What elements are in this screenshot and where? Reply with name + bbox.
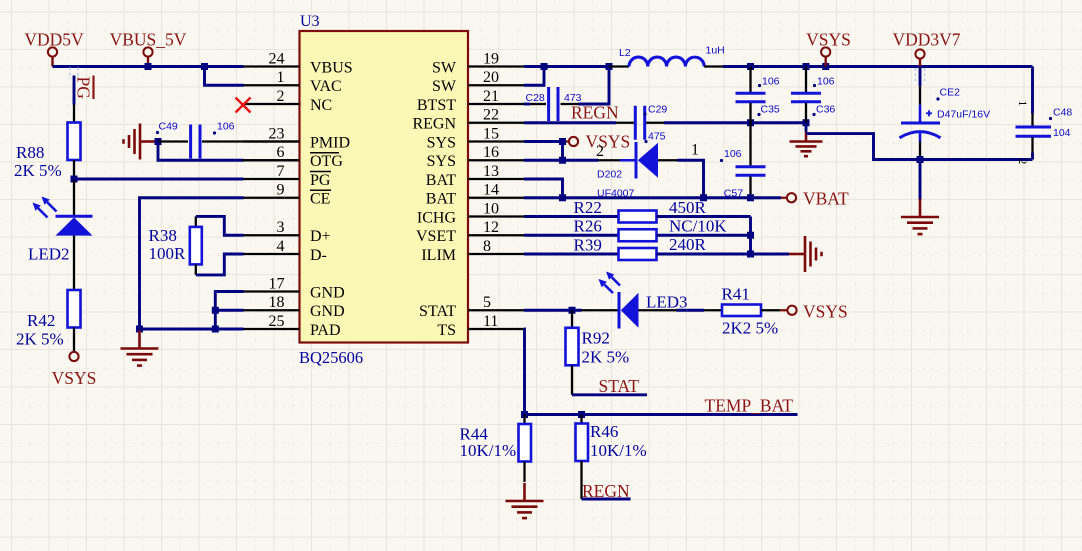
svg-text:R26: R26 — [574, 217, 602, 236]
wire CE net pin 9 — [140, 198, 244, 329]
wire bus down to R88 — [73, 76, 76, 105]
svg-text:1: 1 — [1016, 101, 1028, 107]
svg-text:PMID: PMID — [310, 134, 350, 151]
svg-text:475: 475 — [648, 131, 666, 143]
power port VSYS (bottom left) — [69, 352, 78, 361]
svg-text:C35: C35 — [761, 104, 780, 116]
svg-text:LED2: LED2 — [28, 245, 70, 264]
svg-text:R39: R39 — [574, 236, 602, 255]
LED LED2 — [73, 180, 75, 216]
svg-text:REGN: REGN — [412, 116, 456, 133]
svg-text:19: 19 — [483, 50, 499, 67]
ground (bottom left) — [138, 331, 141, 349]
svg-text:D47uF/16V: D47uF/16V — [937, 109, 990, 121]
svg-text:106: 106 — [724, 148, 742, 160]
svg-text:C57: C57 — [724, 188, 743, 200]
pin 22 REGN (right) — [468, 122, 524, 124]
svg-text:VSYS: VSYS — [803, 302, 848, 322]
svg-text:PG: PG — [310, 172, 331, 189]
svg-text:23: 23 — [269, 125, 285, 142]
svg-text:BQ25606: BQ25606 — [299, 348, 363, 367]
svg-text:106: 106 — [217, 121, 235, 133]
junction R44 top — [521, 411, 528, 418]
capacitor C57 — [749, 123, 751, 166]
pin 7 PG (left) — [244, 178, 300, 180]
svg-text:D202: D202 — [597, 169, 622, 181]
svg-text:VDD3V7: VDD3V7 — [892, 30, 960, 50]
svg-text:BAT: BAT — [426, 172, 456, 189]
junction VBUS_5V stem — [145, 63, 152, 70]
pin 3 D+ (left) — [244, 234, 300, 236]
svg-text:18: 18 — [269, 294, 285, 311]
junction C36 bottom — [803, 119, 810, 126]
svg-text:13: 13 — [483, 163, 499, 180]
svg-text:C29: C29 — [648, 104, 667, 116]
pin 15 SYS (right) — [468, 140, 524, 142]
svg-text:ICHG: ICHG — [417, 209, 457, 226]
svg-text:TEMP_BAT: TEMP_BAT — [705, 396, 794, 416]
svg-text:GND: GND — [310, 303, 345, 320]
ground below C36 — [805, 132, 808, 142]
wire STAT net label stub — [572, 393, 647, 396]
wire LED2 to R42 — [73, 236, 75, 290]
svg-text:1: 1 — [277, 69, 285, 86]
resistor R41 — [677, 309, 705, 312]
junction SYS pin15 — [559, 138, 566, 145]
svg-text:R92: R92 — [582, 329, 610, 348]
svg-text:PAD: PAD — [310, 322, 341, 339]
svg-text:ILIM: ILIM — [421, 247, 456, 264]
IC U3 BQ25606 body — [300, 31, 469, 343]
junction VSYS port stem — [822, 63, 829, 70]
svg-text:SYS: SYS — [427, 134, 456, 151]
svg-text:2K2 5%: 2K2 5% — [722, 319, 778, 338]
svg-text:C48: C48 — [1053, 107, 1072, 119]
wire R22 down — [749, 217, 752, 255]
svg-text:2: 2 — [596, 143, 604, 160]
svg-text:1: 1 — [691, 142, 699, 159]
svg-text:VSYS: VSYS — [806, 30, 851, 50]
junction pin18 branch — [212, 307, 219, 314]
wire R38 bottom to pin 4 D- — [196, 254, 244, 275]
power port VDD5V — [48, 47, 57, 56]
resistor R22 — [524, 215, 619, 218]
svg-text:3: 3 — [277, 219, 285, 236]
ERC marker near R88 top — [69, 68, 71, 80]
svg-text:CE: CE — [310, 191, 330, 208]
svg-text:U3: U3 — [300, 13, 320, 30]
svg-text:OTG: OTG — [310, 153, 343, 170]
junction CE2 bottom — [917, 156, 924, 163]
wire C29 to gnd net — [646, 122, 664, 124]
svg-text:GND: GND — [310, 284, 345, 301]
junction C49 ground node — [155, 138, 162, 145]
junction pin25 line — [212, 326, 219, 333]
ground (rotated left) near C49 — [140, 140, 156, 143]
inductor L2 — [609, 65, 629, 67]
power port VSYS (mid) — [566, 140, 569, 142]
wire R38 top to pin 3 D+ — [196, 216, 244, 235]
pin 25 PAD (left) — [244, 328, 300, 330]
wire BAT pins 13/14 — [524, 179, 563, 198]
pin 20 SW (right) — [468, 84, 524, 86]
svg-text:6: 6 — [277, 144, 285, 161]
svg-text:15: 15 — [483, 125, 499, 142]
wire REGN pin 22 — [524, 121, 616, 124]
svg-text:4: 4 — [277, 238, 285, 255]
svg-text:STAT: STAT — [599, 376, 640, 396]
capacitor C35 — [749, 67, 751, 93]
ground below R44 — [523, 483, 526, 501]
svg-text:SW: SW — [432, 78, 457, 95]
svg-text:1uH: 1uH — [706, 45, 725, 57]
svg-text:240R: 240R — [669, 235, 707, 254]
svg-text:SW: SW — [432, 59, 457, 76]
svg-text:VBUS_5V: VBUS_5V — [110, 30, 187, 50]
capacitor CE2 (electrolytic) — [919, 67, 922, 87]
svg-text:14: 14 — [483, 182, 499, 199]
svg-text:R42: R42 — [27, 311, 55, 330]
wire STAT pin 5 — [524, 309, 582, 312]
svg-text:D+: D+ — [310, 228, 331, 245]
power port VDD3V7 — [915, 49, 924, 58]
pin 9 CE (left) — [244, 197, 300, 199]
resistor R39 — [524, 253, 619, 256]
junction pin1 branch — [201, 63, 208, 70]
resistor R88 — [73, 105, 75, 123]
junction SW pin20 — [541, 63, 548, 70]
svg-text:24: 24 — [269, 50, 285, 67]
pin 21 BTST (right) — [468, 103, 524, 105]
svg-text:VAC: VAC — [310, 78, 342, 95]
svg-text:R46: R46 — [590, 422, 618, 441]
svg-text:STAT: STAT — [419, 303, 456, 320]
wire right gnd rail — [920, 158, 1033, 161]
svg-text:TS: TS — [437, 322, 456, 339]
power port VSYS (right) — [780, 309, 787, 311]
pin 6 OTG (left) — [244, 159, 300, 161]
junction R26 right — [747, 232, 754, 239]
pin 11 TS (right) — [468, 328, 524, 330]
junction GND column — [136, 326, 143, 333]
svg-text:106: 106 — [817, 76, 835, 88]
svg-text:VSET: VSET — [416, 228, 456, 245]
wire TEMP_BAT net — [525, 413, 798, 416]
pin 5 STAT (right) — [468, 309, 524, 311]
wire gnd to right caps — [806, 134, 920, 160]
svg-text:NC: NC — [310, 97, 332, 114]
junction SYS pin16 — [559, 157, 566, 164]
svg-text:17: 17 — [269, 275, 285, 292]
capacitor C49 — [158, 140, 188, 142]
wire SW pins 19/20 — [524, 65, 609, 68]
wire SYS pins 15/16 — [524, 140, 563, 143]
svg-text:104: 104 — [1053, 127, 1071, 139]
pin 14 BAT (right) — [468, 197, 524, 199]
pin 18 GND (left) — [244, 309, 300, 311]
resistor R26 — [524, 234, 619, 237]
wire L2 to VSYS bus — [723, 65, 1033, 68]
junction BAT pins — [559, 194, 566, 201]
svg-text:R38: R38 — [149, 226, 177, 245]
CE2 plus sign — [926, 112, 932, 114]
capacitor C36 — [805, 67, 807, 93]
wire PG net to pin 7 — [74, 178, 244, 181]
svg-text:20: 20 — [483, 69, 499, 86]
pin 1 VAC (left) — [244, 84, 300, 86]
pin 2 NC (left) — [244, 103, 300, 105]
power port VBUS_5V — [143, 47, 152, 56]
svg-text:PG: PG — [74, 77, 94, 100]
junction R88-PG — [71, 176, 78, 183]
svg-text:2K 5%: 2K 5% — [16, 330, 64, 349]
svg-text:R88: R88 — [16, 143, 44, 162]
svg-text:VBAT: VBAT — [803, 189, 849, 209]
svg-text:LED3: LED3 — [646, 293, 688, 312]
svg-text:D-: D- — [310, 247, 327, 264]
svg-text:VDD5V: VDD5V — [24, 30, 84, 50]
svg-text:7: 7 — [277, 163, 285, 180]
junction STAT-R92 — [569, 307, 576, 314]
svg-text:100R: 100R — [149, 244, 187, 263]
svg-text:22: 22 — [483, 107, 499, 124]
resistor R38 — [195, 216, 197, 227]
no-connect X on pin 2 — [236, 98, 251, 113]
svg-text:2K 5%: 2K 5% — [14, 161, 62, 180]
pin 4 D- (left) — [244, 253, 300, 255]
pin 10 ICHG (right) — [468, 215, 524, 217]
wire VSYS bus right corner — [1031, 67, 1034, 114]
junction SW-L2-C28 — [606, 63, 613, 70]
wire branch to pin 1 VAC — [205, 67, 244, 86]
junction D202-VBAT — [700, 194, 707, 201]
svg-text:REGN: REGN — [571, 103, 619, 123]
pin 24 VBUS (left) — [244, 65, 300, 67]
resistor R44 — [523, 415, 525, 425]
wire TS pin 11 down — [523, 329, 526, 415]
svg-text:106: 106 — [762, 76, 780, 88]
LED2 emission arrows — [47, 202, 56, 211]
power port VSYS (top) — [821, 47, 830, 56]
svg-text:VBUS: VBUS — [310, 59, 353, 76]
svg-text:10K/1%: 10K/1% — [590, 441, 647, 460]
resistor R92 — [571, 310, 573, 328]
svg-text:BTST: BTST — [417, 97, 456, 114]
svg-text:10: 10 — [483, 200, 499, 217]
svg-text:2: 2 — [277, 88, 285, 105]
svg-text:2: 2 — [1016, 159, 1028, 165]
svg-text:5: 5 — [483, 294, 491, 311]
svg-text:2K 5%: 2K 5% — [582, 348, 630, 367]
pin 16 SYS (right) — [468, 159, 524, 161]
LED LED3 — [582, 309, 620, 311]
svg-text:REGN: REGN — [582, 481, 630, 501]
pin 8 ILIM (right) — [468, 253, 524, 255]
svg-text:8: 8 — [483, 238, 491, 255]
junction R46 top — [578, 411, 585, 418]
ground (rotated right) for ILIM net — [789, 253, 805, 256]
wire pins 17/18 branch — [215, 292, 243, 330]
ERC marker near CE2 top — [915, 68, 917, 81]
svg-text:C49: C49 — [159, 121, 178, 133]
capacitor C29 — [634, 106, 637, 140]
wire D202 anode to VBAT net — [678, 160, 704, 198]
svg-text:9: 9 — [277, 182, 285, 199]
svg-text:R22: R22 — [574, 198, 602, 217]
svg-text:L2: L2 — [619, 47, 631, 59]
junction C35 bottom — [747, 119, 754, 126]
svg-text:VSYS: VSYS — [52, 368, 97, 388]
svg-text:R41: R41 — [722, 285, 750, 304]
pin 17 GND (left) — [244, 290, 300, 292]
diode D202 — [599, 159, 620, 161]
svg-text:21: 21 — [483, 88, 499, 105]
junction C57-VBAT — [747, 194, 754, 201]
power port VBAT — [781, 197, 787, 199]
junction VSYS-C36 — [803, 63, 810, 70]
capacitor C48 — [1031, 114, 1033, 127]
svg-text:16: 16 — [483, 144, 499, 161]
wire VBAT net — [563, 196, 782, 199]
svg-text:450R: 450R — [669, 198, 707, 217]
svg-text:10K/1%: 10K/1% — [460, 441, 517, 460]
svg-text:SYS: SYS — [427, 153, 456, 170]
pin 19 SW (right) — [468, 65, 524, 67]
svg-text:12: 12 — [483, 219, 499, 236]
resistor R42 — [68, 290, 81, 328]
pin 12 VSET (right) — [468, 234, 524, 236]
wire C49 node to pin 6 OTG — [158, 142, 244, 161]
junction R39 right — [747, 251, 754, 258]
svg-text:C28: C28 — [526, 92, 545, 104]
svg-text:BAT: BAT — [426, 191, 456, 208]
wire C36 gnd branch — [805, 123, 808, 132]
svg-text:VSYS: VSYS — [586, 132, 631, 152]
ground below CE2 — [919, 160, 922, 201]
svg-text:25: 25 — [269, 313, 285, 330]
wire REGN net label stub — [582, 498, 631, 501]
svg-text:CE2: CE2 — [940, 87, 961, 99]
svg-text:NC/10K: NC/10K — [669, 217, 727, 236]
svg-text:11: 11 — [483, 313, 498, 330]
capacitor C28 bootstrap — [524, 103, 530, 106]
wire VDD5V bus to pin 24 — [53, 65, 244, 68]
resistor R46 — [580, 415, 582, 424]
svg-text:C36: C36 — [816, 104, 835, 116]
LED3 emission arrows — [612, 277, 620, 285]
pin 23 PMID (left) — [244, 140, 300, 142]
junction VSYS-C35 — [747, 63, 754, 70]
pin 13 BAT (right) — [468, 178, 524, 180]
